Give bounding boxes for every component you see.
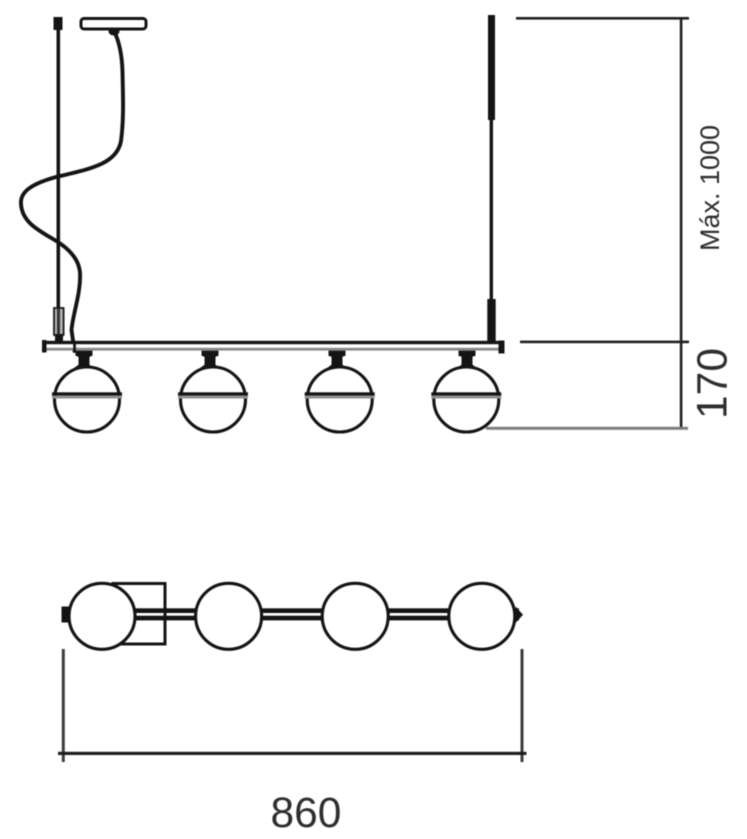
left suspension rod (57, 28, 61, 309)
left rod lower ferrule (54, 308, 64, 335)
horizontal bar body (42, 341, 504, 351)
bar right end cap (499, 341, 505, 354)
globe 1 (55, 367, 120, 432)
left suspension rod top cap (54, 17, 63, 30)
globe 2 seam black (178, 392, 248, 395)
globe 3 seam gray (305, 396, 375, 399)
right suspension rod upper thick segment (488, 15, 495, 120)
lamp stem 1 (74, 350, 94, 369)
cable nub at canopy (109, 28, 120, 36)
left rod foot (55, 334, 63, 342)
bottom view bar right cap (516, 607, 524, 624)
svg-text:170: 170 (690, 348, 737, 419)
bottom view bar upper line (66, 608, 519, 613)
globe 3 (307, 367, 372, 432)
bottom view mounting plate (113, 584, 165, 645)
left rod ferrule core (57, 308, 60, 335)
svg-text:Máx. 1000: Máx. 1000 (695, 125, 725, 251)
globe 1 seam black (52, 392, 122, 395)
bottom view globe 1 (69, 583, 135, 649)
globe 2 (181, 367, 246, 432)
horizontal bar bottom edge (42, 348, 504, 351)
bottom view globe 3 (322, 583, 388, 649)
globe 4 seam black (431, 392, 501, 395)
width dimension extension line left (62, 649, 65, 762)
globe 4 (434, 367, 499, 432)
globe 2 seam gray (178, 396, 248, 399)
lamp stem 4 (457, 350, 477, 369)
width dimension extension line right (521, 649, 524, 762)
right rod lower ferrule (487, 299, 495, 342)
right suspension rod (490, 118, 493, 302)
cable end passing through bar (73, 342, 76, 351)
horizontal bar top edge (42, 341, 504, 344)
globe 3 seam black (305, 392, 375, 395)
lamp stem 2 (200, 350, 220, 369)
power cable (21, 31, 123, 351)
dimension extension line top (516, 17, 689, 20)
dimension extension line bottom gray (486, 427, 688, 430)
dimension tick at bar level (520, 341, 689, 344)
bottom view globe 2 (196, 583, 262, 649)
globe 1 seam gray (52, 396, 122, 399)
globe 4 seam gray (431, 396, 501, 399)
lamp stem 3 (327, 350, 347, 369)
svg-text:860: 860 (271, 790, 342, 837)
width dimension line (58, 752, 527, 755)
bottom view bar left cap (62, 607, 70, 623)
bottom view globe 4 (449, 583, 515, 649)
bottom view bar lower line (66, 616, 519, 621)
bar left end cap (42, 340, 47, 353)
dimension line vertical (680, 17, 683, 427)
ceiling canopy (81, 19, 146, 30)
